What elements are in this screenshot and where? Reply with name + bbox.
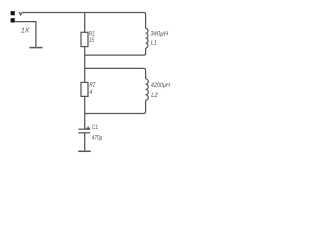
svg-text:4: 4 xyxy=(89,89,92,96)
capacitor C1 bottom plate xyxy=(78,132,90,134)
svg-text:15: 15 xyxy=(89,37,95,44)
wire L2 bottom to bottom rail xyxy=(85,100,146,113)
svg-text:L1: L1 xyxy=(151,39,157,46)
svg-text:340µH: 340µH xyxy=(150,31,168,38)
plus sign of C1 xyxy=(86,126,90,130)
wire vertical bus: top rail to R1 xyxy=(84,13,86,33)
svg-text:470µ: 470µ xyxy=(92,135,103,142)
wire R1 bottom to R2 top xyxy=(84,47,86,83)
connector X1 pad 1 xyxy=(11,11,15,15)
svg-text:L2: L2 xyxy=(151,92,158,99)
wire mid rail 2 to L2 top xyxy=(85,68,146,79)
wire kink from X1 pin 1 xyxy=(19,12,22,15)
wire R2 bottom to C1 xyxy=(84,96,86,129)
inductor L2 coil xyxy=(146,79,149,100)
svg-text:R2: R2 xyxy=(89,81,95,88)
svg-text:C1: C1 xyxy=(92,124,98,131)
wire C1 to ground xyxy=(84,133,86,151)
ground bar below C1 xyxy=(78,150,91,152)
svg-text:4200µH: 4200µH xyxy=(151,82,170,89)
wire top rail to L1 xyxy=(22,13,146,29)
wire L1 bottom to mid rail 1 xyxy=(85,48,146,55)
inductor L1 coil xyxy=(146,28,148,48)
svg-text:1X: 1X xyxy=(21,28,30,35)
wire X1 pin 2 to ground xyxy=(15,22,36,47)
connector X1 pad 2 xyxy=(11,18,15,22)
resistor R1 xyxy=(81,32,88,46)
ground bar at X1 xyxy=(29,47,42,49)
resistor R2 xyxy=(81,82,88,96)
capacitor C1 top plate xyxy=(78,128,90,130)
